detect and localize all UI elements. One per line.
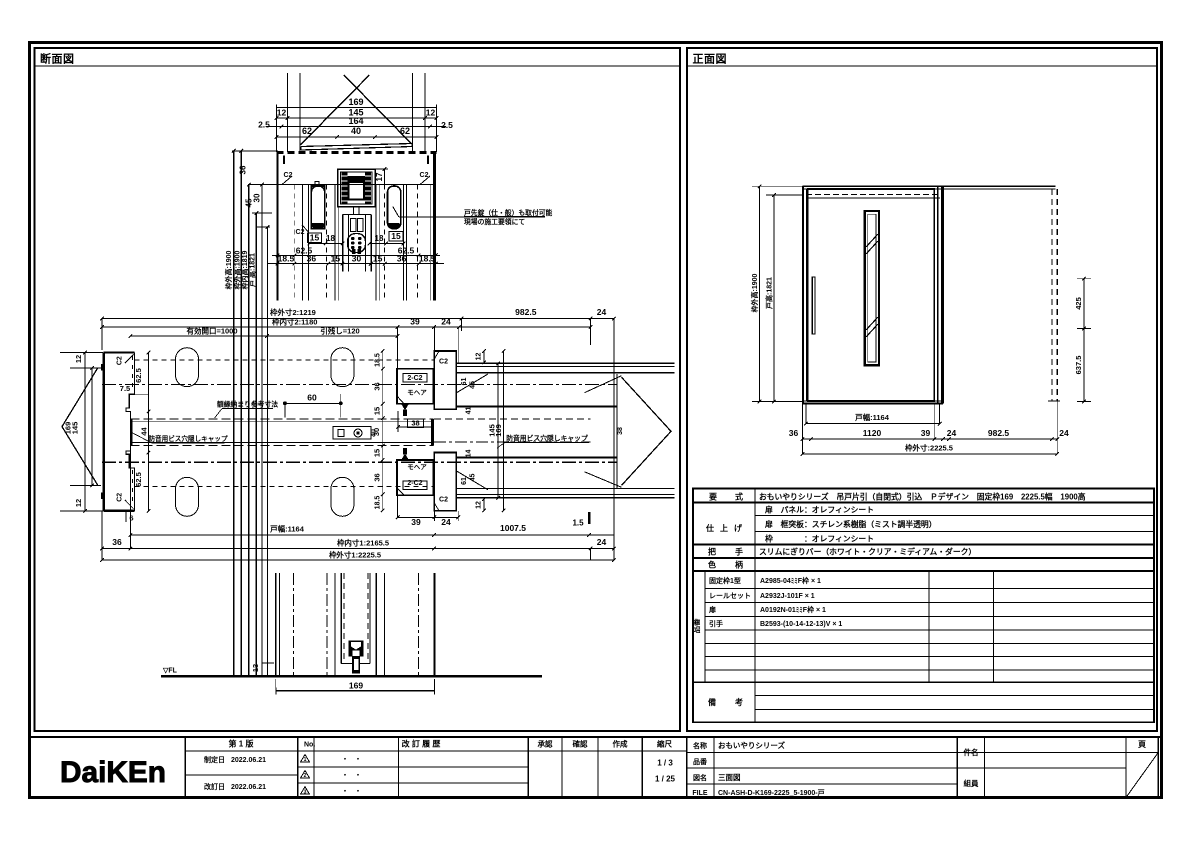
svg-text:12: 12 (476, 501, 483, 509)
svg-text:把: 把 (708, 547, 716, 557)
svg-text:B2593-(10-14-12-13)V × 1: B2593-(10-14-12-13)V × 1 (760, 621, 842, 628)
svg-text:FILE: FILE (692, 790, 707, 797)
svg-text:扉 框突板：スチレン系樹脂（ミスト調半透明）: 扉 框突板：スチレン系樹脂（ミスト調半透明） (764, 519, 937, 529)
svg-text:62: 62 (302, 126, 312, 136)
svg-text:枠内寸1:2165.5: 枠内寸1:2165.5 (336, 538, 389, 548)
svg-text:承認: 承認 (538, 739, 553, 749)
svg-text:戸幅:1164: 戸幅:1164 (855, 412, 890, 422)
svg-text:色: 色 (708, 560, 716, 570)
svg-text:38: 38 (411, 419, 419, 428)
svg-text:No.: No. (304, 742, 315, 749)
svg-text:C2: C2 (117, 493, 124, 502)
svg-text:982.5: 982.5 (515, 307, 537, 317)
svg-text:39: 39 (921, 428, 931, 438)
svg-text:24: 24 (947, 428, 957, 438)
svg-text:30: 30 (253, 193, 262, 202)
svg-text:40: 40 (351, 126, 361, 136)
svg-text:36: 36 (789, 428, 799, 438)
svg-text:15: 15 (310, 233, 320, 243)
svg-text:額縁納まり参考寸法: 額縁納まり参考寸法 (217, 400, 278, 409)
svg-text:・: ・ (355, 772, 362, 779)
svg-text:確認: 確認 (572, 739, 588, 749)
svg-text:38: 38 (617, 427, 624, 435)
svg-text:モヘア: モヘア (407, 463, 427, 471)
svg-text:A2932J-101F × 1: A2932J-101F × 1 (760, 593, 815, 600)
svg-text:・: ・ (342, 756, 349, 763)
svg-text:図名: 図名 (693, 773, 707, 782)
svg-text:12: 12 (476, 353, 483, 361)
svg-text:36: 36 (307, 254, 317, 264)
svg-text:モヘア: モヘア (407, 389, 427, 397)
svg-text:枠内高:1819: 枠内高:1819 (240, 250, 249, 289)
svg-text:レールセット: レールセット (709, 592, 751, 600)
svg-text:1 / 25: 1 / 25 (655, 775, 676, 784)
svg-text:12: 12 (277, 108, 287, 118)
svg-text:・: ・ (355, 756, 362, 763)
svg-text:2-C2: 2-C2 (407, 375, 422, 382)
svg-text:考: 考 (735, 697, 743, 707)
svg-text:引残し=120: 引残し=120 (320, 326, 359, 336)
svg-text:1120: 1120 (863, 428, 882, 438)
svg-text:39: 39 (411, 517, 421, 527)
svg-text:・: ・ (355, 788, 362, 795)
svg-text:60: 60 (307, 393, 317, 403)
svg-text:39: 39 (410, 317, 420, 327)
svg-text:▽FL: ▽FL (162, 668, 178, 675)
svg-text:62: 62 (400, 126, 410, 136)
svg-text:24: 24 (1059, 428, 1069, 438)
svg-text:7.5: 7.5 (120, 384, 130, 393)
svg-text:13: 13 (251, 664, 260, 672)
svg-text:C2: C2 (284, 172, 293, 179)
svg-text:36: 36 (397, 254, 407, 264)
svg-text:手: 手 (735, 547, 743, 557)
svg-text:扉 パネル：オレフィンシート: 扉 パネル：オレフィンシート (764, 505, 874, 515)
svg-text:A2985-04ﾐﾐF枠 × 1: A2985-04ﾐﾐF枠 × 1 (760, 576, 821, 585)
svg-text:頁: 頁 (1138, 740, 1146, 749)
svg-text:防音用ビス穴隠しキャップ: 防音用ビス穴隠しキャップ (148, 434, 228, 443)
svg-text:24: 24 (597, 537, 607, 547)
svg-text:第 1 版: 第 1 版 (229, 739, 254, 749)
svg-text:改訂日: 改訂日 (204, 782, 225, 791)
svg-text:枠外寸1:2225.5: 枠外寸1:2225.5 (328, 550, 381, 560)
svg-text:引手: 引手 (709, 619, 723, 628)
svg-text:982.5: 982.5 (988, 428, 1010, 438)
svg-text:45: 45 (470, 381, 477, 389)
svg-text:三面図: 三面図 (718, 773, 741, 782)
svg-text:12: 12 (74, 499, 83, 507)
svg-text:戸 高:1821: 戸 高:1821 (248, 253, 257, 287)
svg-text:36: 36 (239, 165, 248, 174)
svg-text:式: 式 (735, 492, 743, 502)
svg-text:24: 24 (441, 317, 451, 327)
svg-text:2022.06.21: 2022.06.21 (231, 784, 266, 791)
svg-text:18.5: 18.5 (375, 353, 382, 367)
svg-text:637.5: 637.5 (1074, 356, 1083, 375)
svg-text:C2: C2 (439, 359, 448, 366)
svg-text:正面図: 正面図 (693, 52, 728, 66)
svg-text:品番: 品番 (693, 757, 708, 766)
svg-text:24: 24 (597, 307, 607, 317)
svg-text:要: 要 (709, 493, 717, 502)
svg-text:2022.06.21: 2022.06.21 (231, 757, 266, 764)
svg-text:DaiKEn: DaiKEn (60, 756, 166, 789)
svg-text:2.5: 2.5 (441, 120, 453, 130)
svg-text:1: 1 (304, 757, 307, 763)
svg-text:げ: げ (734, 523, 743, 533)
svg-text:・: ・ (342, 772, 349, 779)
svg-text:15: 15 (373, 449, 382, 457)
svg-text:62.5: 62.5 (134, 472, 143, 487)
svg-text:1007.5: 1007.5 (500, 523, 526, 533)
svg-text:戸高:1821: 戸高:1821 (765, 277, 774, 309)
svg-text:24: 24 (441, 517, 451, 527)
svg-text:17: 17 (375, 172, 384, 181)
svg-text:枠外高:1900: 枠外高:1900 (750, 273, 759, 312)
svg-text:防音用ビス穴隠しキャップ: 防音用ビス穴隠しキャップ (506, 434, 588, 443)
svg-text:おもいやりシリーズ: おもいやりシリーズ (718, 740, 785, 750)
svg-text:14: 14 (466, 450, 473, 458)
svg-text:36: 36 (112, 537, 122, 547)
svg-text:61: 61 (461, 378, 468, 386)
svg-text:12: 12 (426, 108, 436, 118)
svg-text:425: 425 (1074, 297, 1083, 310)
svg-text:CN-ASH-D-K169-2225_5-1900-戸: CN-ASH-D-K169-2225_5-1900-戸 (718, 789, 825, 797)
svg-text:169: 169 (348, 97, 363, 107)
svg-text:2.5: 2.5 (258, 120, 270, 130)
svg-text:C2: C2 (296, 229, 305, 236)
svg-text:15: 15 (373, 407, 382, 415)
svg-text:18: 18 (326, 234, 335, 243)
svg-text:61: 61 (461, 477, 468, 485)
svg-text:18.5: 18.5 (419, 254, 436, 264)
svg-text:15: 15 (373, 254, 383, 264)
svg-text:12: 12 (74, 355, 83, 363)
svg-text:枠内寸2:1180: 枠内寸2:1180 (271, 317, 317, 327)
svg-text:15: 15 (391, 231, 401, 241)
svg-text:枠外寸:2225.5: 枠外寸:2225.5 (904, 443, 953, 453)
svg-text:柄: 柄 (735, 560, 743, 570)
svg-text:戸先錠（仕・般）も取付可能: 戸先錠（仕・般）も取付可能 (464, 208, 553, 217)
svg-text:1 / 3: 1 / 3 (657, 759, 673, 768)
svg-text:スリムにぎりバー（ホワイト・クリア・ミディアム・ダーク）: スリムにぎりバー（ホワイト・クリア・ミディアム・ダーク） (759, 547, 976, 557)
svg-text:縮尺: 縮尺 (657, 739, 672, 749)
svg-text:36: 36 (373, 473, 382, 481)
svg-text:18.5: 18.5 (375, 496, 382, 510)
svg-text:18.5: 18.5 (278, 254, 295, 264)
svg-text:169: 169 (494, 424, 503, 437)
svg-text:扉: 扉 (708, 605, 716, 614)
svg-text:3: 3 (304, 789, 307, 795)
svg-text:断面図: 断面図 (40, 52, 75, 66)
svg-text:145: 145 (71, 422, 80, 435)
svg-text:30: 30 (372, 428, 381, 436)
svg-text:1.5: 1.5 (572, 519, 584, 528)
svg-text:・: ・ (342, 788, 349, 795)
svg-text:30: 30 (352, 254, 362, 264)
svg-text:固定枠1型: 固定枠1型 (709, 576, 741, 585)
svg-text:36: 36 (373, 382, 382, 390)
svg-text:45: 45 (470, 474, 477, 482)
svg-text:枠 ：オレフィンシート: 枠 ：オレフィンシート (765, 534, 874, 544)
svg-text:品番: 品番 (691, 618, 701, 633)
svg-text:A0192N-01ﾐﾐF枠 × 1: A0192N-01ﾐﾐF枠 × 1 (760, 605, 826, 614)
svg-text:44: 44 (139, 427, 148, 436)
svg-text:作成: 作成 (613, 739, 628, 749)
svg-text:15: 15 (331, 254, 341, 264)
svg-text:おもいやりシリーズ 吊戸片引（自閉式）引込 Ｐデザイン 固定: おもいやりシリーズ 吊戸片引（自閉式）引込 Ｐデザイン 固定枠169 2225.… (759, 492, 1086, 502)
svg-text:備: 備 (708, 697, 716, 707)
svg-text:仕: 仕 (705, 523, 714, 533)
svg-text:枠外高:1900: 枠外高:1900 (233, 250, 242, 289)
svg-text:C2: C2 (117, 356, 124, 365)
svg-text:有効開口=1000: 有効開口=1000 (186, 326, 237, 336)
svg-text:C2: C2 (439, 497, 448, 504)
svg-text:上: 上 (720, 523, 728, 533)
svg-text:改 訂 履 歴: 改 訂 履 歴 (402, 739, 441, 749)
svg-text:枠外高:1900: 枠外高:1900 (224, 250, 233, 289)
svg-text:2: 2 (304, 773, 307, 779)
svg-text:組員: 組員 (964, 778, 979, 788)
svg-text:枠外寸2:1219: 枠外寸2:1219 (269, 307, 316, 317)
svg-text:件名: 件名 (964, 747, 979, 757)
svg-text:18: 18 (375, 234, 384, 243)
svg-text:現場の施工要領にて: 現場の施工要領にて (464, 217, 525, 226)
svg-text:戸幅:1164: 戸幅:1164 (270, 524, 305, 534)
svg-text:62.5: 62.5 (134, 368, 143, 383)
svg-text:制定日: 制定日 (204, 755, 225, 764)
svg-text:名称: 名称 (693, 741, 707, 750)
svg-text:169: 169 (349, 681, 363, 691)
svg-text:164: 164 (348, 116, 363, 126)
